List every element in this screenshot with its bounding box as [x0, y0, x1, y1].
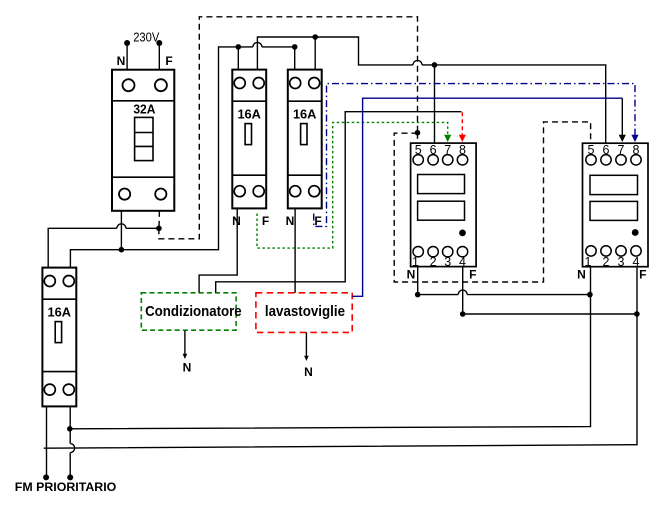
breaker Q4 16A right — [288, 70, 322, 209]
blue solid wire lavastoviglie to relay K2 pin7 — [352, 98, 622, 296]
wire drop to right breaker F terminal — [314, 37, 316, 70]
svg-text:lavastoviglie: lavastoviglie — [265, 303, 345, 320]
svg-text:N: N — [183, 361, 192, 375]
junction dot (breaker N feed) — [236, 44, 242, 50]
svg-text:8: 8 — [633, 143, 640, 157]
svg-text:F: F — [469, 267, 476, 281]
terminal dot FM right — [67, 474, 73, 480]
terminal dot FM left — [43, 474, 49, 480]
wire Condizionatore N arrow — [184, 331, 186, 356]
svg-text:3: 3 — [444, 255, 451, 269]
green wire middle breaker F to relay K1 pin7 — [257, 122, 448, 248]
svg-text:N: N — [232, 214, 241, 228]
wire 32A N output drop — [120, 211, 122, 250]
svg-text:7: 7 — [618, 143, 625, 157]
svg-text:2: 2 — [430, 255, 437, 269]
wire Condizionatore F to relay K1 pin8 feed — [216, 112, 462, 293]
relay K2 — [583, 143, 649, 267]
terminal dot 230V N — [124, 40, 130, 46]
svg-text:5: 5 — [588, 143, 595, 157]
black segment + arrow into relay K2 pin7 — [621, 98, 623, 136]
svg-text:FM PRIORITARIO: FM PRIORITARIO — [15, 480, 117, 494]
wire relay K2 F return bus — [44, 267, 637, 448]
svg-text:32A: 32A — [133, 102, 156, 117]
pin numbers 5 6 7 8 (relay K1) — [415, 143, 466, 157]
dashed wire 32A F to relays pin5 (coil feed) — [159, 17, 418, 239]
pin numbers 1 2 3 4 (relay K1) — [412, 255, 466, 269]
wire left breaker bottom left to FM — [46, 406, 48, 477]
dashed wire branch to relay K2 pin5 — [394, 122, 590, 282]
wire lavastoviglie N arrow — [305, 332, 307, 358]
breaker Q3 16A middle — [232, 70, 266, 209]
junction dot (corner above right breaker N) — [292, 44, 298, 50]
wire 230V N drop — [126, 43, 128, 70]
breaker Q2 16A left — [42, 268, 76, 407]
junction dot (relay K2 N junction) — [587, 292, 593, 298]
wire left breaker bottom right to FM (with hop) — [70, 406, 75, 477]
pin numbers 1 2 3 4 (relay K2) — [585, 255, 640, 269]
junction dot (32A N end) — [119, 247, 125, 253]
red dashed wire into relay K1 pin8 — [461, 112, 463, 136]
svg-text:Condizionatore: Condizionatore — [145, 303, 242, 320]
svg-text:N: N — [286, 214, 295, 228]
svg-text:8: 8 — [459, 143, 466, 157]
svg-text:N: N — [407, 267, 416, 281]
junction dot (relay K1 N corner) — [415, 292, 421, 298]
wire 32A N to left breaker top (y=228.3) with hop — [48, 224, 159, 268]
svg-text:16A: 16A — [237, 107, 261, 122]
junction dot (32A F / dashed junction) — [156, 226, 162, 232]
blue arrow into relay K2 pin8 — [631, 135, 638, 142]
svg-text:F: F — [639, 267, 646, 281]
svg-text:7: 7 — [444, 143, 451, 157]
svg-text:16A: 16A — [48, 305, 72, 320]
svg-text:N: N — [304, 365, 313, 379]
wire middle breaker N to Condizionatore — [199, 208, 237, 292]
svg-text:230V: 230V — [133, 30, 159, 45]
svg-text:5: 5 — [415, 143, 422, 157]
junction dot (relay K1 pin5) — [415, 130, 421, 136]
green arrow into pin7 — [444, 135, 451, 142]
breaker Q1 32A main — [112, 70, 174, 211]
relay K1 — [411, 143, 477, 267]
svg-text:N: N — [117, 54, 126, 68]
wire relay K1 F to relay K2 F (y=314) — [463, 267, 637, 314]
load box Condizionatore — [141, 293, 236, 330]
wire relay K1 N to relay K2 N (y=294.6) with hop — [418, 267, 590, 295]
blue dash-dot wire right breaker F to relay K2 pin8 — [314, 84, 635, 227]
svg-text:6: 6 — [430, 143, 437, 157]
junction dot (relay K2 F junction) — [634, 311, 640, 317]
svg-text:F: F — [262, 214, 269, 228]
junction dot (relay K1 pin6 feed) — [432, 62, 438, 68]
terminal dot 230V F — [156, 40, 162, 46]
wire relay K1 pin6 drop — [434, 65, 436, 143]
wire drop to middle breaker N terminal — [237, 47, 239, 70]
load box lavastoviglie — [256, 293, 352, 333]
svg-text:2: 2 — [603, 255, 610, 269]
svg-text:N: N — [577, 267, 586, 281]
wire relay K2 N return bus — [70, 267, 591, 429]
junction dot (N bus tap) — [67, 426, 73, 432]
svg-text:F: F — [165, 54, 172, 68]
wire N bus to left breaker (y=249.7) with corner up to breakers N feed — [70, 42, 294, 267]
wire right breaker N to lavastoviglie — [294, 208, 296, 292]
red arrow into pin8 — [459, 135, 466, 142]
svg-text:6: 6 — [603, 143, 610, 157]
pin numbers 5 6 7 8 (relay K2) — [588, 143, 640, 157]
junction dot (right breaker F feed) — [312, 34, 318, 40]
svg-text:16A: 16A — [293, 107, 317, 122]
svg-text:3: 3 — [618, 255, 625, 269]
wire F feed breakers to relays pin6 — [257, 37, 605, 143]
wire 230V F drop — [158, 43, 160, 70]
junction dot (relay K1 F corner) — [460, 311, 466, 317]
